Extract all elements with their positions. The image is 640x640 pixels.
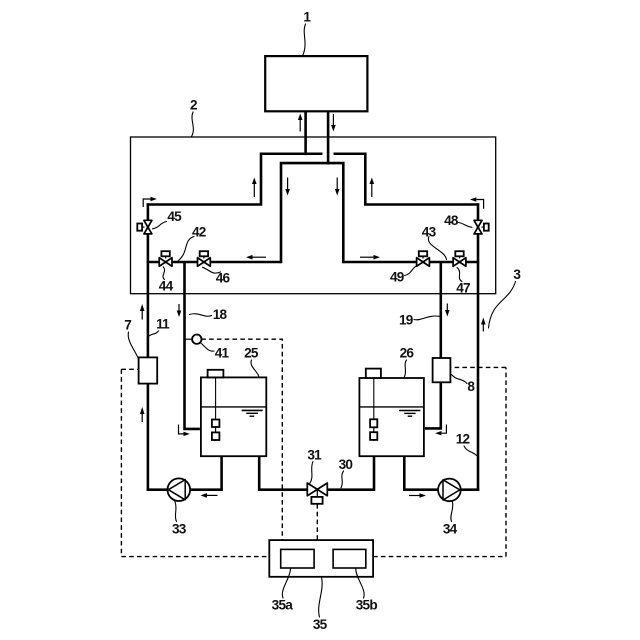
dashed boundary bottom left [121, 556, 269, 558]
label 25 [244, 346, 259, 377]
pipe: inner U manifold [281, 163, 343, 263]
flow arrow down beside pipe 19 [445, 304, 450, 317]
label 2 [190, 98, 198, 137]
label 45 [153, 209, 183, 229]
svg-text:48: 48 [444, 213, 459, 228]
pipe: riser 11 (left) [147, 203, 150, 491]
controller part 35b [333, 549, 366, 568]
sensor 41 stub [185, 338, 193, 340]
dashed control line to component 7 [121, 368, 138, 370]
dashed boundary bottom right [373, 556, 506, 558]
svg-text:42: 42 [192, 225, 207, 240]
label 11 [149, 317, 170, 336]
flow arrow up on riser 11 lower [140, 407, 145, 422]
label 30 [339, 457, 353, 488]
svg-text:35b: 35b [356, 597, 378, 612]
flow arrow up on riser 11 upper [140, 304, 145, 320]
dashed control line from sensor 41 [201, 339, 282, 540]
label 46 [203, 267, 231, 285]
flow arrow down beside pipe 18 [177, 304, 182, 317]
label 3 [489, 267, 522, 328]
flow elbow arrow into tank 25 [179, 425, 190, 437]
dashed boundary left [120, 369, 122, 556]
svg-text:26: 26 [400, 346, 415, 361]
dashed control line valve 31 [316, 504, 318, 540]
svg-text:12: 12 [456, 431, 471, 446]
label 33 [172, 501, 187, 536]
label 49 [390, 266, 418, 285]
label 8 [452, 375, 476, 394]
svg-text:35: 35 [313, 617, 328, 632]
flow elbow arrow top-right corner [470, 197, 484, 209]
label 48 [444, 213, 472, 228]
svg-text:7: 7 [124, 317, 131, 332]
valve 49 [417, 251, 430, 266]
label 18 [190, 307, 228, 322]
svg-text:33: 33 [172, 521, 187, 536]
pipe: right valve line [343, 261, 479, 264]
label 34 [443, 502, 458, 537]
box 2 (outdoor unit housing) [131, 137, 496, 294]
flow arrow left on left valve line [246, 255, 266, 260]
controller 35 [269, 540, 373, 577]
component 8 [433, 358, 451, 382]
label 43 [422, 225, 447, 260]
svg-text:31: 31 [307, 447, 322, 462]
tank 25 [201, 370, 266, 456]
dashed control line to component 8 [450, 366, 506, 368]
svg-text:45: 45 [167, 209, 182, 224]
svg-text:35a: 35a [272, 597, 294, 612]
pipe: left valve line [147, 261, 281, 264]
label 44 [159, 267, 174, 294]
label 1 [303, 10, 312, 57]
label 35b [356, 569, 378, 613]
flow arrow up beside right outer vertical [370, 178, 375, 198]
pump 34 [438, 479, 461, 502]
flow arrow up on riser 12 [481, 318, 486, 332]
valve 46 [198, 251, 211, 266]
flow arrow into pump 33 [201, 493, 218, 498]
flow arrow up beside left outer vertical [252, 178, 257, 198]
label 26 [400, 346, 415, 377]
valve 45 [137, 220, 152, 234]
pipe: outer left path (riser L top to crossover) [147, 154, 323, 205]
pipe: return line B to manifold [327, 110, 330, 164]
pipe: outer right path [334, 154, 480, 205]
valve 47 [453, 251, 466, 266]
label 42 [178, 225, 206, 261]
flow arrow down beside pipe B [331, 114, 336, 132]
pipe: supply line A from unit 1 [304, 110, 307, 155]
label 12 [456, 431, 477, 455]
svg-text:44: 44 [159, 278, 174, 293]
sensor 41 [192, 335, 201, 344]
label 35 [313, 577, 328, 632]
svg-text:3: 3 [513, 267, 521, 282]
flow elbow arrow into tank 26 [435, 425, 446, 436]
flow arrow into pump 34 [409, 493, 426, 498]
label 41 [201, 343, 230, 361]
svg-text:47: 47 [456, 280, 470, 295]
flow arrow right on right valve line [360, 255, 380, 260]
svg-text:2: 2 [190, 98, 198, 113]
svg-text:34: 34 [443, 521, 458, 536]
controller part 35a [281, 549, 314, 568]
label 19 [399, 312, 439, 327]
box 1 (heat exchanger unit) [265, 56, 367, 111]
tank 26 [359, 369, 424, 457]
flow elbow arrow top-left corner [143, 197, 157, 207]
valve 31 [307, 483, 327, 504]
label 7 [124, 317, 139, 359]
dashed boundary right [505, 367, 507, 556]
pipe 19 to tank 26 [425, 262, 441, 428]
flow arrow down beside left inner vertical [285, 178, 290, 196]
svg-text:25: 25 [244, 346, 259, 361]
pipe 18 to tank 25 [185, 262, 200, 429]
valve 44 [159, 251, 172, 266]
label 31 [307, 447, 322, 483]
svg-text:49: 49 [390, 270, 405, 285]
pipe: riser 12 (right) [477, 203, 480, 491]
label 47 [456, 268, 470, 296]
label 35a [272, 569, 294, 613]
svg-text:18: 18 [213, 307, 228, 322]
valve 48 [474, 220, 489, 234]
svg-text:1: 1 [303, 10, 311, 25]
pipe: pump 33 suction/discharge run [147, 455, 222, 490]
flow arrow up beside pipe A [298, 114, 303, 132]
pipe: tank 26 to pump 34 run [404, 455, 479, 490]
svg-text:8: 8 [467, 379, 475, 394]
svg-text:11: 11 [156, 317, 170, 332]
pump 33 [168, 478, 191, 501]
flow arrow down beside right inner vertical [335, 178, 340, 196]
svg-text:19: 19 [399, 312, 414, 327]
svg-text:30: 30 [339, 457, 353, 472]
pipe 30 between tanks [259, 455, 374, 490]
svg-text:41: 41 [215, 346, 230, 361]
component 7 [139, 357, 158, 383]
